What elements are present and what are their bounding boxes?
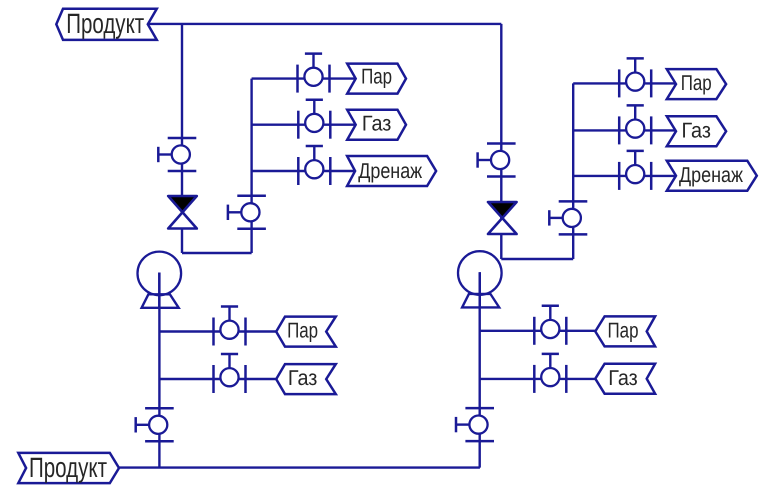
svg-text:Продукт: Продукт <box>29 452 107 483</box>
wire: bottom product header line <box>119 466 480 468</box>
wire: right pump inlet junction horizontal <box>501 258 573 260</box>
node: left bottom steam inlet label <box>276 317 336 347</box>
node: product inlet label (top left) <box>56 8 157 40</box>
svg-text:Пар: Пар <box>608 318 639 342</box>
node: right gas outlet label <box>667 116 726 146</box>
svg-text:Газ: Газ <box>681 119 711 143</box>
node: right bottom steam inlet label <box>595 316 655 346</box>
wire: left manifold branch to drain <box>252 170 356 172</box>
control valve: right train (normally closed) <box>488 202 517 234</box>
node: product outlet label (bottom left) <box>18 452 119 483</box>
wire: right manifold branch to gas <box>573 129 676 131</box>
valve: left steam branch valve <box>298 54 330 93</box>
valve: left train inlet hand valve <box>158 138 196 171</box>
wire: right bottom branch to gas <box>480 378 596 380</box>
wire: left vent manifold vertical pipe <box>250 79 252 253</box>
wire: right manifold branch to steam <box>573 82 676 84</box>
valve: left vent manifold isolation valve <box>228 196 266 229</box>
wire: left train main vertical pipe <box>181 24 183 253</box>
wire: left bottom branch to steam <box>159 330 276 332</box>
valve: right train outlet hand valve <box>456 408 494 441</box>
svg-text:Дренаж: Дренаж <box>679 163 744 187</box>
pump: right pump <box>458 251 502 307</box>
valve: right train inlet hand valve <box>478 144 516 177</box>
wire: left pump inlet junction horizontal <box>182 252 252 254</box>
node: left steam outlet label <box>347 64 406 94</box>
valve: right drain branch valve <box>619 151 651 190</box>
valve: left bottom gas branch valve <box>214 354 246 393</box>
wire: left bottom branch to gas <box>159 378 276 380</box>
svg-text:Продукт: Продукт <box>66 8 144 39</box>
wire: left manifold branch to steam <box>252 77 356 79</box>
valve: right bottom steam branch valve <box>534 306 566 345</box>
svg-text:Пар: Пар <box>287 318 318 342</box>
svg-text:Пар: Пар <box>361 65 392 89</box>
valve: right gas branch valve <box>619 105 651 144</box>
valve: right vent manifold isolation valve <box>549 201 587 234</box>
valve: left train outlet hand valve <box>136 408 174 441</box>
valve: right bottom gas branch valve <box>534 354 566 393</box>
svg-text:Газ: Газ <box>288 366 318 390</box>
wire: right train main vertical pipe <box>500 24 502 259</box>
valve: left drain branch valve <box>298 146 330 185</box>
valve: right steam branch valve <box>619 58 651 97</box>
wire: right pump discharge vertical pipe <box>479 273 481 468</box>
valve: left gas branch valve <box>298 100 330 139</box>
control valve: left train (normally closed) <box>168 196 197 229</box>
svg-text:Дренаж: Дренаж <box>358 159 423 183</box>
node: right steam outlet label <box>667 69 726 99</box>
wire: top product header line <box>148 23 502 25</box>
wire: right vent manifold vertical pipe <box>572 83 574 259</box>
wire: left pump discharge vertical pipe <box>158 273 160 468</box>
node: left drain outlet label <box>347 156 436 186</box>
wire: right manifold branch to drain <box>573 175 676 177</box>
node: left gas outlet label <box>347 110 406 140</box>
pump: left pump <box>138 252 182 308</box>
node: right drain outlet label <box>667 161 757 191</box>
node: right bottom gas inlet label <box>595 364 655 394</box>
wire: left manifold branch to gas <box>252 123 356 125</box>
svg-text:Газ: Газ <box>362 112 392 136</box>
wire: right bottom branch to steam <box>480 330 596 332</box>
valve: left bottom steam branch valve <box>214 307 246 346</box>
node: left bottom gas inlet label <box>276 364 336 394</box>
svg-text:Газ: Газ <box>608 366 638 390</box>
svg-text:Пар: Пар <box>681 71 712 95</box>
